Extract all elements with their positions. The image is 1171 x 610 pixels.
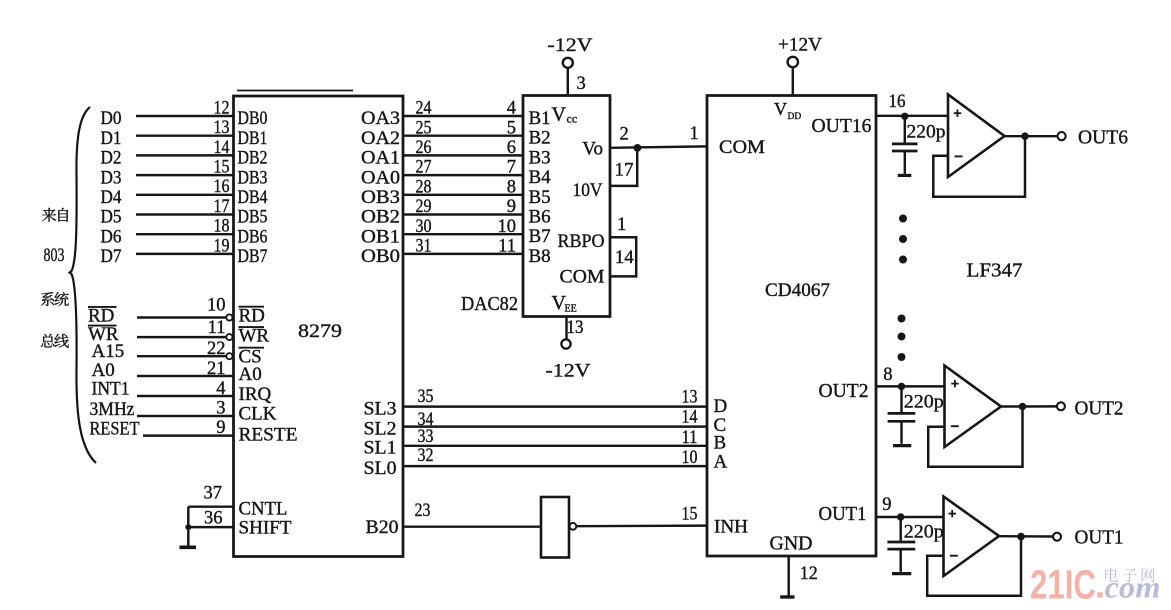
IC U3 DAC82 body [523, 96, 610, 317]
svg-text:13: 13 [214, 118, 230, 138]
svg-text:OUT6: OUT6 [1078, 126, 1128, 148]
svg-text:220p: 220p [904, 392, 944, 413]
capacitor C2 220p [900, 386, 902, 412]
svg-text:10V: 10V [573, 180, 603, 201]
svg-text:SL2: SL2 [364, 419, 397, 440]
svg-text:9: 9 [882, 495, 891, 515]
svg-text:1: 1 [690, 124, 699, 144]
watermark dot [1097, 592, 1102, 597]
wire INT1 [137, 395, 234, 397]
svg-text:LF347: LF347 [967, 260, 1023, 281]
junction CNTL/SHIFT [185, 524, 191, 530]
wire RBPO to COM pin 14 loop [610, 237, 636, 276]
svg-text:16: 16 [214, 177, 230, 197]
svg-text:12: 12 [214, 98, 230, 118]
svg-text:D5: D5 [101, 207, 122, 228]
inverter U2 body [541, 497, 569, 558]
svg-text:8: 8 [507, 177, 516, 197]
scan artifact line above 8279 [237, 90, 353, 92]
ellipsis dots upper [899, 215, 907, 223]
junction OUT16/C1 [901, 113, 908, 120]
svg-text:A: A [714, 452, 728, 473]
svg-text:22: 22 [207, 339, 226, 359]
svg-text:16: 16 [889, 92, 906, 112]
svg-text:17: 17 [615, 161, 634, 181]
svg-text:-12V: -12V [548, 35, 593, 56]
wire OUT1 pin 9 to op-amp [876, 516, 944, 518]
svg-text:RESTE: RESTE [239, 424, 298, 445]
wire CNTL-SHIFT tie down [187, 507, 189, 546]
svg-text:Vo: Vo [582, 139, 603, 160]
wire 8279 pin 29 to DAC82 pin 9 [403, 213, 523, 215]
svg-text:CNTL: CNTL [239, 499, 288, 520]
wire A3 feedback [927, 537, 1021, 596]
svg-text:D4: D4 [101, 187, 122, 208]
op-amp A1 - input mark [955, 155, 963, 157]
op-amp A2 + input mark [951, 383, 959, 385]
wire OUT2 pin 8 to op-amp [876, 385, 945, 387]
svg-text:11: 11 [682, 428, 698, 448]
supply +12V terminal [788, 57, 798, 67]
svg-text:31: 31 [416, 237, 432, 257]
svg-text:3: 3 [577, 74, 586, 94]
svg-text:B4: B4 [529, 167, 552, 188]
svg-text:INT1: INT1 [92, 379, 130, 400]
svg-text:18: 18 [214, 217, 230, 237]
svg-text:32: 32 [418, 446, 434, 466]
overbar RD inside [239, 306, 265, 308]
svg-text:13: 13 [567, 318, 584, 338]
svg-text:25: 25 [416, 118, 432, 138]
wire Vo to 10V pin 17 loop [610, 148, 637, 186]
svg-text:4: 4 [507, 99, 516, 119]
svg-text:3: 3 [216, 399, 225, 419]
op-amp A3 - input mark [950, 555, 958, 557]
wire 3MHz [137, 415, 234, 417]
svg-text:6: 6 [507, 138, 516, 158]
svg-text:COM: COM [560, 267, 605, 288]
svg-text:RESET: RESET [90, 418, 140, 439]
svg-text:cc: cc [567, 112, 578, 126]
overbar WR inside [239, 326, 265, 328]
supply -12V bottom terminal [561, 339, 570, 348]
wire D6 to 8279 [136, 233, 234, 235]
svg-text:CLK: CLK [239, 403, 277, 424]
svg-text:RD: RD [239, 305, 265, 326]
inverting bubble WR [226, 334, 232, 340]
op-amp A2 - input mark [951, 425, 959, 427]
svg-text:OA0: OA0 [361, 167, 400, 188]
svg-text:28: 28 [416, 177, 432, 197]
IC U1 8279 body [234, 96, 404, 557]
wire D7 to 8279 [136, 253, 234, 255]
wire OUT16 pin 16 to op-amp [876, 115, 948, 117]
svg-text:SHIFT: SHIFT [239, 518, 292, 539]
svg-text:D: D [714, 396, 728, 417]
svg-text:13: 13 [682, 388, 698, 408]
wire D2 to 8279 [136, 154, 234, 156]
overbar CS inside [239, 347, 265, 349]
svg-text:OB1: OB1 [361, 226, 400, 247]
svg-text:OB2: OB2 [361, 207, 400, 228]
ellipsis dots lower [898, 315, 906, 323]
junction A2 output [1019, 403, 1027, 411]
wire B20 to inverter [403, 525, 541, 527]
svg-text:IRQ: IRQ [239, 384, 272, 405]
wire -12V to Vcc pin 3 [567, 68, 569, 96]
ground G1 [180, 545, 197, 549]
op-amp A1 + input mark [954, 112, 962, 114]
svg-text:INH: INH [714, 516, 748, 537]
svg-text:15: 15 [214, 158, 230, 178]
op-amp A3 + input mark [949, 513, 957, 515]
svg-text:DB7: DB7 [238, 246, 268, 267]
svg-text:B5: B5 [529, 187, 551, 208]
svg-text:WR: WR [239, 326, 270, 347]
svg-text:EE: EE [565, 304, 577, 315]
svg-text:B6: B6 [529, 207, 551, 228]
svg-text:9: 9 [507, 197, 516, 217]
svg-text:220p: 220p [907, 121, 946, 142]
svg-text:OUT2: OUT2 [819, 381, 869, 402]
svg-text:1: 1 [617, 215, 626, 235]
wire SHIFT pin 36 [188, 526, 233, 528]
wire 8279 pin 28 to DAC82 pin 8 [403, 194, 523, 196]
wire GND pin 12 [787, 556, 789, 596]
svg-text:2: 2 [620, 125, 629, 145]
wire +12V to Vdd [792, 67, 794, 95]
svg-text:7: 7 [507, 158, 516, 178]
svg-text:8: 8 [883, 365, 892, 385]
junction OUT1/C3 [897, 513, 904, 520]
op-amp A1 body [948, 95, 1005, 178]
label 系统 (system) [41, 292, 54, 306]
svg-text:9: 9 [216, 418, 225, 438]
wire A1 feedback [933, 136, 1025, 197]
system bus brace [70, 107, 97, 463]
svg-text:OUT1: OUT1 [1075, 526, 1124, 548]
svg-text:5: 5 [507, 118, 516, 138]
svg-text:36: 36 [204, 508, 223, 528]
label 总线 (bus) [41, 334, 55, 348]
svg-text:OB0: OB0 [361, 246, 400, 267]
wire 8279 pin 30 to DAC82 pin 10 [403, 233, 523, 235]
terminal OUT2 [1057, 402, 1065, 410]
svg-text:11: 11 [498, 237, 516, 257]
svg-text:B1: B1 [529, 108, 551, 129]
svg-text:220p: 220p [904, 522, 944, 543]
op-amp A2 body [945, 366, 1002, 448]
capacitor C1 220p [904, 116, 906, 142]
ground C1 [898, 174, 912, 177]
svg-text:OUT2: OUT2 [1075, 398, 1124, 420]
label 来自 (from) [42, 208, 56, 222]
svg-text:29: 29 [416, 197, 432, 217]
svg-text:D1: D1 [101, 128, 122, 149]
wire D3 to 8279 [136, 174, 234, 176]
svg-text:A0: A0 [239, 364, 262, 385]
wire A1 output [1005, 135, 1058, 137]
svg-text:21: 21 [207, 359, 226, 379]
svg-text:D2: D2 [101, 148, 122, 169]
svg-text:33: 33 [418, 427, 434, 447]
wire A15 [137, 355, 226, 357]
wire Vo to CD4067 COM [610, 146, 707, 147]
wire 8279 pin 26 to DAC82 pin 6 [403, 154, 523, 156]
svg-text:3MHz: 3MHz [90, 399, 135, 420]
junction A1 output [1021, 132, 1029, 140]
svg-text:SL1: SL1 [364, 438, 397, 459]
svg-text:SL3: SL3 [364, 399, 397, 420]
inverting bubble RD [226, 314, 232, 320]
junction OUT2/C2 [898, 383, 905, 390]
svg-text:10: 10 [207, 296, 226, 316]
svg-text:DAC82: DAC82 [461, 294, 518, 315]
wire CNTL pin 37 [188, 505, 233, 507]
svg-text:19: 19 [214, 236, 230, 256]
svg-text:V: V [552, 104, 567, 126]
wire D4 to 8279 [136, 194, 234, 196]
svg-text:21IC: 21IC [1030, 562, 1096, 608]
svg-text:DD: DD [788, 112, 802, 122]
svg-text:OA1: OA1 [361, 148, 400, 169]
svg-text:DB3: DB3 [238, 167, 268, 188]
wire A3 output [999, 535, 1053, 538]
svg-text:DB5: DB5 [238, 207, 268, 228]
op-amp A3 body [944, 497, 1000, 577]
svg-text:RBPO: RBPO [558, 231, 605, 252]
svg-text:B7: B7 [529, 226, 551, 247]
svg-text:17: 17 [214, 197, 230, 217]
svg-text:SL0: SL0 [364, 458, 397, 479]
terminal OUT1 [1053, 533, 1061, 541]
svg-text:11: 11 [208, 318, 226, 338]
junction Vo feedback [634, 144, 642, 152]
svg-text:V: V [774, 99, 787, 119]
wire Vee pin 13 to -12V [565, 317, 567, 340]
svg-text:10: 10 [682, 448, 698, 468]
watermark 电子网 [1105, 568, 1118, 582]
svg-text:4: 4 [216, 379, 225, 399]
overbar RD [88, 306, 117, 308]
svg-text:DB1: DB1 [238, 128, 268, 149]
ground C3 [892, 572, 911, 575]
svg-text:B8: B8 [529, 246, 551, 267]
svg-text:24: 24 [416, 99, 432, 119]
svg-text:DB6: DB6 [238, 226, 268, 247]
wire SL1 to CD4067 B [403, 445, 707, 447]
wire A0 [137, 375, 234, 377]
wire 8279 pin 24 to DAC82 pin 4 [403, 115, 523, 117]
wire 8279 pin 25 to DAC82 pin 5 [403, 134, 523, 136]
svg-text:+12V: +12V [778, 35, 822, 56]
svg-text:B2: B2 [529, 128, 551, 149]
svg-text:D0: D0 [101, 108, 122, 129]
svg-text:10: 10 [498, 217, 517, 237]
wire 8279 pin 31 to DAC82 pin 11 [403, 253, 523, 255]
ground C2 [893, 444, 911, 447]
svg-text:COM: COM [719, 137, 765, 158]
ground G2 [780, 595, 794, 598]
svg-text:-12V: -12V [546, 361, 591, 382]
wire RD [137, 316, 226, 318]
overbar WR [88, 325, 117, 327]
svg-text:14: 14 [615, 248, 634, 268]
terminal OUT6 [1058, 132, 1066, 140]
svg-text:D7: D7 [101, 246, 122, 267]
svg-text:OUT16: OUT16 [812, 116, 872, 137]
svg-text:DB4: DB4 [238, 187, 268, 208]
wire SL2 to CD4067 C [403, 425, 707, 427]
svg-text:14: 14 [214, 138, 230, 158]
svg-text:com: com [1105, 570, 1161, 605]
svg-text:DB2: DB2 [238, 148, 268, 169]
svg-text:803: 803 [44, 246, 65, 266]
IC U4 CD4067 body [707, 96, 876, 557]
inverting bubble A15 [226, 353, 232, 359]
svg-text:27: 27 [416, 158, 432, 178]
svg-text:14: 14 [682, 408, 698, 428]
svg-text:B3: B3 [529, 147, 551, 168]
svg-text:OB3: OB3 [361, 187, 400, 208]
svg-text:30: 30 [416, 217, 432, 237]
svg-text:CD4067: CD4067 [765, 280, 830, 301]
svg-text:23: 23 [415, 501, 431, 521]
wire SL3 to CD4067 D [403, 405, 707, 407]
svg-text:26: 26 [416, 138, 432, 158]
svg-text:B: B [714, 433, 727, 454]
svg-text:B20: B20 [366, 517, 399, 538]
wire A2 feedback [928, 407, 1022, 467]
junction A3 output [1017, 533, 1025, 541]
svg-text:OA3: OA3 [361, 108, 400, 129]
wire D5 to 8279 [136, 213, 234, 215]
inverter U2 output bubble [570, 523, 577, 530]
wire A2 output [1001, 405, 1057, 408]
svg-text:OUT1: OUT1 [819, 504, 867, 525]
capacitor C3 220p [899, 517, 901, 541]
wire 8279 pin 27 to DAC82 pin 7 [403, 174, 523, 176]
wire WR [137, 336, 226, 338]
svg-text:12: 12 [800, 564, 818, 584]
supply -12V top terminal [563, 58, 573, 68]
svg-text:OA2: OA2 [361, 128, 400, 149]
svg-text:DB0: DB0 [238, 108, 268, 129]
svg-text:D6: D6 [101, 226, 122, 247]
svg-text:15: 15 [682, 505, 698, 525]
svg-text:D3: D3 [101, 167, 122, 188]
wire SL0 to CD4067 A [403, 465, 707, 467]
svg-text:GND: GND [770, 533, 813, 554]
wire D1 to 8279 [136, 134, 234, 136]
wire D0 to 8279 [136, 115, 234, 117]
svg-text:8279: 8279 [298, 321, 342, 342]
wire inverter to INH [577, 524, 708, 527]
svg-text:37: 37 [204, 483, 223, 503]
svg-text:35: 35 [418, 387, 434, 407]
wire RESET [143, 434, 234, 436]
